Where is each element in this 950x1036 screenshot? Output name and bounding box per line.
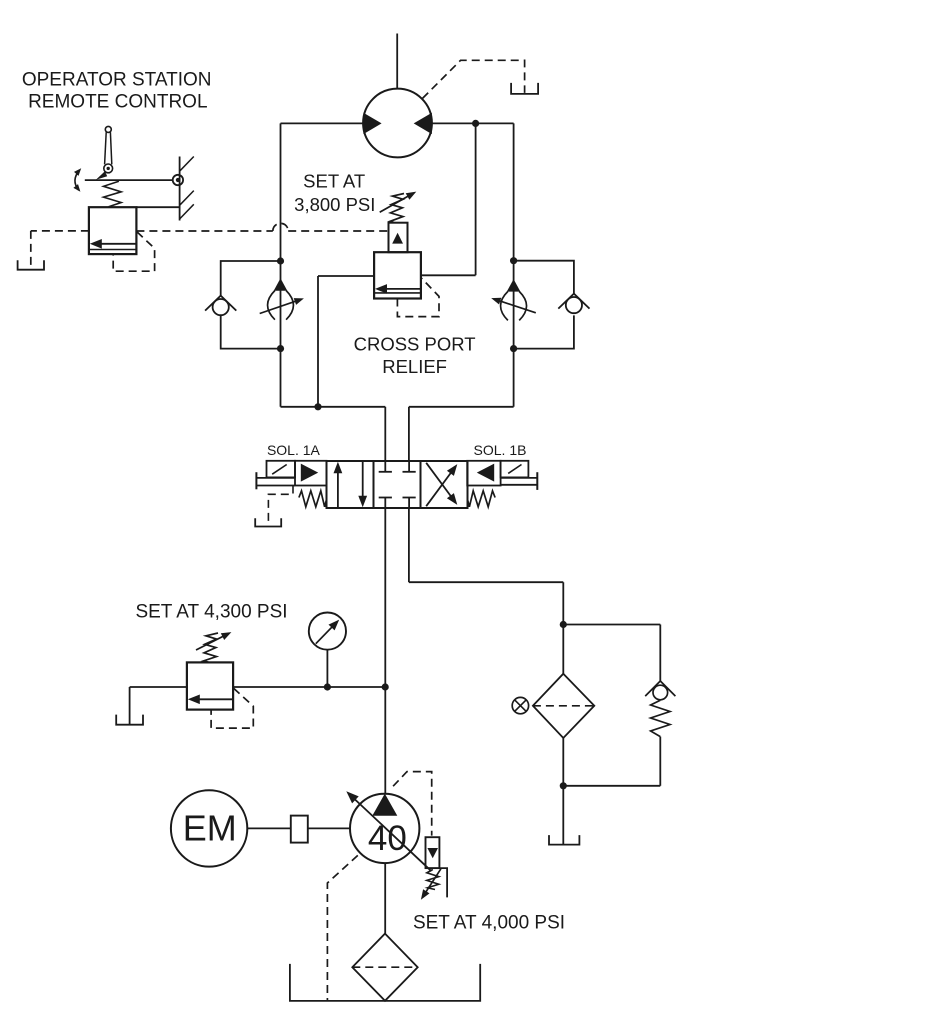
svg-text:RELIEF: RELIEF: [382, 356, 447, 377]
svg-text:40: 40: [368, 819, 407, 858]
svg-text:EM: EM: [183, 807, 237, 848]
svg-text:SET AT 4,000 PSI: SET AT 4,000 PSI: [413, 913, 565, 934]
svg-text:SOL. 1B: SOL. 1B: [474, 442, 527, 458]
svg-text:CROSS PORT: CROSS PORT: [354, 333, 476, 354]
svg-text:SOL. 1A: SOL. 1A: [267, 442, 321, 458]
svg-text:SET AT: SET AT: [303, 171, 365, 192]
svg-text:REMOTE CONTROL: REMOTE CONTROL: [28, 92, 207, 113]
svg-text:SET AT 4,300 PSI: SET AT 4,300 PSI: [135, 601, 287, 622]
svg-text:3,800 PSI: 3,800 PSI: [294, 194, 375, 215]
svg-text:OPERATOR STATION: OPERATOR STATION: [22, 69, 212, 90]
